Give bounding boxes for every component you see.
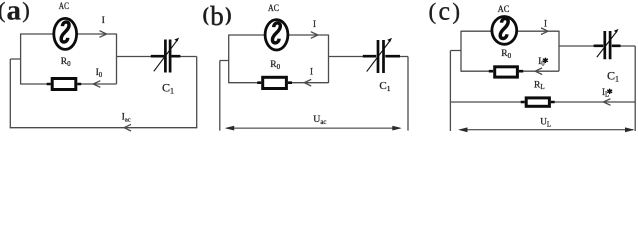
svg-text:I: I [313, 19, 316, 29]
svg-text:I: I [310, 67, 313, 77]
svg-text:I: I [544, 18, 547, 28]
svg-text:AC: AC [59, 2, 69, 12]
svg-text:I: I [102, 15, 105, 25]
svg-text:AC: AC [268, 4, 279, 14]
svg-text:(c): (c) [429, 0, 460, 26]
svg-text:AC: AC [498, 5, 510, 15]
